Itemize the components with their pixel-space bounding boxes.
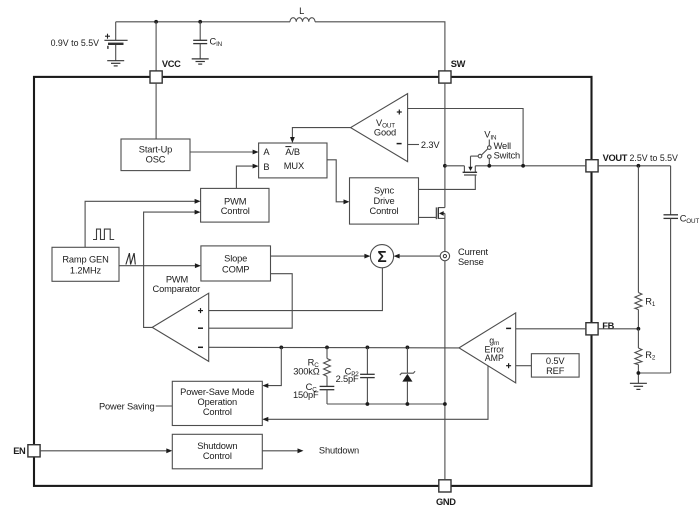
clock waveform symbol — [93, 229, 114, 239]
svg-text:B: B — [263, 162, 269, 172]
node: rail junction to VCC — [154, 20, 158, 24]
node: bottom rail diode — [406, 402, 410, 406]
node: VOUT rail to divider — [637, 164, 641, 168]
block Start-Up OSC — [121, 139, 190, 171]
wire: compensation bottom rail to GND line — [327, 403, 445, 405]
op-amp PWM Comparator — [152, 275, 209, 362]
transistor Q2 NMOS main switch — [436, 207, 445, 219]
svg-text:Control: Control — [203, 451, 232, 461]
svg-text:Drive: Drive — [374, 196, 395, 206]
svg-text:Σ: Σ — [377, 249, 386, 266]
node: VOUT Good + tap on VOUT rail — [521, 164, 525, 168]
node: FB divider junction — [637, 327, 641, 331]
svg-text:Comparator: Comparator — [153, 284, 201, 294]
svg-text:0.5V: 0.5V — [546, 356, 565, 366]
svg-text:PWM: PWM — [224, 197, 246, 207]
pin VCC — [150, 59, 181, 83]
node: divider ground junction — [637, 371, 641, 375]
capacitor CIN — [193, 22, 222, 59]
wire: error amp + input to reference — [516, 365, 532, 367]
pin GND — [436, 480, 456, 507]
block 0.5V REF — [531, 354, 579, 377]
svg-text:2.5pF: 2.5pF — [336, 374, 359, 384]
wire: error amp bottom tap to Power-Save block — [262, 366, 488, 422]
inductor L — [290, 6, 315, 22]
svg-text:Control: Control — [370, 206, 399, 216]
wire: VOUT rail right segment PMOS to VOUT pin — [475, 165, 586, 167]
wire: NMOS gate to Sync Drive Control — [419, 216, 437, 218]
resistor RC 300k — [293, 347, 330, 376]
svg-text:Power-Save Mode: Power-Save Mode — [180, 387, 254, 397]
block A/B MUX — [259, 143, 327, 178]
svg-text:Power Saving: Power Saving — [99, 402, 155, 412]
svg-text:FB: FB — [602, 321, 614, 331]
svg-text:Current: Current — [458, 247, 489, 257]
wire: FB pin to divider — [598, 328, 638, 330]
battery 0.9V to 5.5V — [51, 22, 128, 61]
svg-text:Good: Good — [374, 128, 396, 138]
svg-text:GND: GND — [436, 497, 456, 507]
wire: NMOS source down to GND pin — [444, 218, 446, 479]
ground: output divider ground — [630, 383, 647, 389]
wire: PWM Control to MUX B input — [236, 164, 258, 189]
svg-text:1.2MHz: 1.2MHz — [70, 266, 102, 276]
svg-text:Slope: Slope — [224, 254, 247, 264]
wire: MUX output to Sync Drive Control — [327, 160, 350, 204]
svg-text:Well: Well — [494, 141, 511, 151]
wire: rail from inductor to SW drop — [315, 22, 445, 71]
svg-text:Operation: Operation — [198, 397, 237, 407]
wire: Ramp GEN clock output to PWM Control input 1 — [85, 199, 201, 247]
pin SW — [439, 59, 466, 83]
wire: OSC to MUX A input — [190, 150, 259, 155]
svg-text:Control: Control — [203, 407, 232, 417]
svg-text:300kΩ: 300kΩ — [293, 366, 320, 376]
svg-text:REF: REF — [546, 366, 565, 376]
summer circle with sigma — [370, 245, 393, 268]
block Sync Drive Control — [350, 178, 419, 224]
wire: PWM comparator output to PWM Control input 2 — [144, 210, 201, 328]
IC boundary — [34, 77, 592, 486]
transistor Q1 PMOS synchronous rectifier — [463, 156, 478, 175]
node: well switch to VOUT rail — [487, 164, 491, 168]
wire: error amp - input to FB pin — [516, 328, 586, 330]
current sense pickup — [440, 247, 488, 267]
svg-text:VCC: VCC — [162, 59, 181, 69]
node: bottom rail to GND line — [443, 402, 447, 406]
svg-text:COMP: COMP — [222, 265, 249, 275]
wire: EN pin to Shutdown Control — [40, 448, 172, 453]
block Shutdown Control — [172, 434, 262, 469]
block Slope COMP — [201, 246, 271, 281]
node: SW to PMOS rail junction — [443, 164, 447, 168]
svg-text:Start-Up: Start-Up — [139, 144, 172, 154]
wire: VOUT Good + input from VOUT rail — [408, 109, 523, 166]
svg-text:EN: EN — [13, 446, 26, 456]
node: comp rail junction RC — [325, 346, 329, 350]
wire: PMOS gate to Sync Drive Control — [419, 175, 476, 189]
op-amp gm Error AMP — [459, 313, 516, 383]
node: bottom rail CP2 — [366, 402, 370, 406]
wire: Slope COMP lower output to PWM comparator mid input — [209, 274, 293, 329]
switch: well switch SPDT — [471, 130, 521, 166]
diode D1 zener clamp — [400, 347, 415, 404]
wire: summer output to PWM comparator + input — [209, 268, 383, 311]
svg-text:Sync: Sync — [374, 185, 395, 195]
node: rail junction to CIN — [198, 20, 202, 24]
wire: Ramp GEN ramp output to Slope COMP — [119, 263, 201, 268]
wire: top input rail from battery to inductor — [116, 21, 290, 23]
wire: current sense to summer — [394, 254, 441, 259]
svg-text:SW: SW — [451, 59, 466, 69]
svg-text:Ramp GEN: Ramp GEN — [62, 255, 108, 265]
svg-text:AMP: AMP — [485, 353, 504, 363]
svg-text:OSC: OSC — [146, 155, 166, 165]
svg-text:VOUT: VOUT — [603, 153, 628, 163]
capacitor COUT — [638, 166, 699, 373]
block Ramp GEN 1.2MHz — [52, 247, 119, 281]
pin FB — [586, 321, 615, 335]
svg-text:150pF: 150pF — [293, 390, 319, 400]
wire: VOUT Good output to MUX top — [290, 128, 351, 143]
wire: VOUT pin to output network — [598, 165, 671, 167]
svg-text:Shutdown: Shutdown — [319, 445, 359, 455]
wire: SW pin down to NMOS drain — [444, 83, 446, 208]
node: comp rail junction CP2 — [366, 346, 370, 350]
resistor R2 — [635, 329, 656, 384]
block Power-Save Mode Operation Control — [172, 381, 262, 425]
svg-text:Sense: Sense — [458, 257, 484, 267]
wire: compensation rail from PWM comparator to error amp output — [209, 346, 459, 349]
svg-text:A: A — [263, 147, 270, 157]
node: comp rail junction diode — [406, 346, 410, 350]
wire: Slope COMP output to summer — [271, 254, 371, 259]
pin EN — [13, 445, 40, 457]
svg-text:A/B: A/B — [285, 147, 300, 157]
svg-text:2.5V to 5.5V: 2.5V to 5.5V — [630, 153, 679, 163]
op-amp comparator VOUT Good — [351, 94, 408, 162]
capacitor CP2 2.5pF — [336, 347, 375, 404]
node: comp rail junction to power save — [279, 346, 283, 350]
wire: VOUT rail left segment SW to PMOS — [445, 165, 465, 167]
svg-text:Control: Control — [221, 206, 250, 216]
resistor R1 — [635, 166, 656, 329]
svg-text:L: L — [299, 6, 304, 16]
wire: rail to VCC pin — [155, 22, 157, 71]
pin VOUT — [586, 153, 678, 172]
wire: VOUT Good - input 2.3V stub — [408, 140, 441, 150]
svg-text:Switch: Switch — [494, 151, 520, 161]
ramp waveform symbol — [126, 253, 135, 264]
svg-text:0.9V to 5.5V: 0.9V to 5.5V — [51, 38, 100, 48]
ground: CIN ground — [192, 59, 209, 64]
label Power Saving — [99, 402, 172, 412]
capacitor CC 150pF — [293, 376, 334, 404]
wire: Shutdown Control output — [262, 445, 359, 455]
wire: comp rail tap down to Power-Save block — [262, 347, 281, 388]
wire: VCC pin to Start-Up OSC — [155, 83, 157, 139]
block PWM Control — [201, 188, 269, 222]
ground: battery ground — [107, 61, 124, 66]
svg-text:Shutdown: Shutdown — [197, 441, 237, 451]
svg-text:2.3V: 2.3V — [421, 140, 440, 150]
svg-text:MUX: MUX — [284, 161, 304, 171]
